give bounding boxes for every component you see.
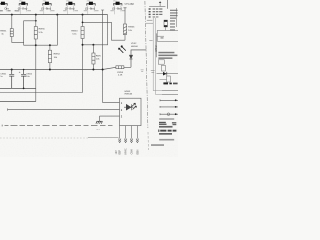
- svg-text:HW10B: HW10B: [125, 94, 133, 96]
- component small box dark caps: [164, 20, 167, 30]
- line right y79: [160, 78, 167, 80]
- notes text block bottom right: [151, 118, 176, 146]
- svg-text:{5·-8m}: {5·-8m}: [85, 6, 95, 10]
- node RW57 bottom: [92, 69, 94, 71]
- wire RW59 to VD52: [124, 66, 131, 68]
- node cap2 top: [23, 69, 25, 71]
- transistor VT56: [113, 1, 122, 15]
- wire RW57 stub: [92, 45, 94, 53]
- svg-text:{5·-8m}: {5·-8m}: [18, 6, 28, 10]
- wire RW56 bottom: [124, 35, 126, 41]
- svg-text:{5·-8m}: {5·-8m}: [65, 6, 75, 10]
- svg-text:RW53: RW53: [71, 30, 78, 32]
- svg-text:2SC: 2SC: [19, 1, 23, 3]
- svg-text:RW54: RW54: [54, 54, 61, 56]
- node opto wire: [102, 69, 104, 71]
- transistor VT54: [66, 1, 75, 15]
- wire RW53 bottom long: [82, 39, 84, 93]
- tick near chain: [147, 19, 153, 21]
- svg-text:12V: 12V: [116, 150, 118, 155]
- resistor RW53: [81, 27, 84, 39]
- svg-text:BEN: BEN: [137, 149, 139, 154]
- svg-text:Om: Om: [4, 6, 9, 10]
- wire cap ground line: [0, 87, 36, 89]
- small boxes right column: [158, 60, 164, 64]
- stub line y100.3: [160, 99, 178, 101]
- wire pin3: [100, 115, 120, 117]
- stub line y106.9: [160, 106, 178, 108]
- label fragments row2: [0, 10, 19, 12]
- svg-text:CNH: CNH: [131, 149, 133, 154]
- node RW57 top: [92, 44, 94, 46]
- svg-text:2.2K: 2.2K: [118, 75, 123, 77]
- stepped outline right: [157, 30, 178, 41]
- stub line y94.7: [162, 94, 178, 96]
- small box under diode: [167, 76, 171, 82]
- connector table A: [149, 8, 163, 17]
- vertical cable with rotated text: [155, 33, 157, 57]
- far right vertical: [176, 8, 178, 27]
- transistor VT55: [87, 1, 96, 15]
- text rows mid right: [158, 52, 177, 59]
- diode right column: [157, 72, 179, 76]
- wire line C: [0, 101, 36, 103]
- wire RW54 drop from bus: [36, 15, 58, 46]
- svg-text:m·n: m·n: [96, 129, 99, 131]
- svg-text:CW59: CW59: [117, 72, 124, 74]
- svg-text:2SC: 2SC: [113, 1, 117, 3]
- node bus-RW53: [82, 14, 84, 16]
- wire RW55 top: [35, 15, 37, 27]
- pin tick top: [101, 9, 104, 11]
- optocoupler HN53 box: [120, 98, 142, 125]
- chain line board edge: [145, 1, 148, 128]
- caption dashes row: [2, 125, 112, 127]
- resistor RW54: [48, 50, 51, 63]
- svg-text:2SC: 2SC: [43, 1, 47, 3]
- text block top far right: [170, 10, 178, 19]
- pin chevrons: [118, 139, 138, 143]
- svg-text:RW55: RW55: [39, 29, 46, 31]
- connector pins below box: [120, 126, 138, 139]
- node bus-RW54: [56, 14, 58, 16]
- node branch: [82, 22, 84, 24]
- svg-text:RW5: RW5: [96, 55, 102, 57]
- capacitor CW51: [9, 70, 14, 89]
- resistor RW59 horizontal: [116, 66, 124, 69]
- node RW53-line44: [82, 44, 84, 46]
- wire top right edge: [167, 0, 169, 9]
- svg-text:2SC: 2SC: [87, 1, 91, 3]
- svg-text:HN53: HN53: [125, 91, 131, 93]
- node cap2 bottom: [23, 88, 25, 90]
- node RW55 bottom: [35, 44, 37, 46]
- wire RW55 bottom: [35, 39, 37, 102]
- LED inside HN53: [124, 104, 134, 110]
- transistor VT52: [19, 1, 28, 15]
- transistor VT51: [0, 2, 7, 15]
- stub line y114.2 with circle: [160, 113, 178, 116]
- svg-text:RW51: RW51: [0, 30, 7, 32]
- node loop top: [35, 20, 37, 22]
- resistor RW51: [10, 29, 13, 37]
- svg-text:CW52: CW52: [26, 73, 33, 75]
- wire RW53 top: [82, 15, 84, 27]
- wire vertical to opto pin1: [103, 10, 120, 102]
- svg-text:BEP: BEP: [120, 149, 122, 154]
- wire RW55 parallel loop: [24, 21, 36, 45]
- symbol wing hooks: [0, 3, 122, 5]
- pin labels rotated: [116, 148, 139, 154]
- svg-text:2SC: 2SC: [66, 1, 70, 3]
- node cap CW51: [11, 69, 13, 71]
- wire RW56 top with tick: [124, 8, 127, 24]
- symbol second text row: [16, 10, 125, 12]
- wire RW54 bottom: [49, 63, 51, 70]
- wire bus end corner: [83, 15, 108, 45]
- svg-text:{5·-8m}: {5·-8m}: [112, 7, 122, 11]
- diode VD52: [129, 50, 146, 67]
- wire RW51 top: [11, 15, 13, 29]
- wire pin2 long: [8, 109, 120, 111]
- arrow top right: [159, 1, 162, 3]
- svg-text:HG500: HG500: [131, 46, 139, 48]
- wire RW54 top stub: [49, 45, 51, 50]
- resistor RW56: [123, 24, 126, 35]
- LED arrows VD52: [119, 46, 126, 53]
- svg-text:{5·-8m}: {5·-8m}: [41, 6, 51, 10]
- wire line B: [0, 92, 83, 94]
- node RW54 bottom: [49, 69, 51, 71]
- wire bottom horizontal: [0, 137, 88, 139]
- resistor RW55: [34, 27, 37, 40]
- node bus-RW55: [35, 14, 37, 16]
- wire ground stub: [99, 116, 101, 121]
- svg-text:XP5-2: XP5-2: [156, 45, 158, 52]
- svg-text:KPAC: KPAC: [125, 148, 128, 154]
- wire RW51 bottom to loop: [12, 37, 24, 43]
- tick pin2 end: [7, 108, 9, 110]
- bracket text rows right: [170, 20, 175, 30]
- cable wires right column: [153, 18, 162, 91]
- wire RW57 bottom: [92, 64, 94, 70]
- transistor VT53: [43, 1, 52, 15]
- svg-text:CW51: CW51: [0, 73, 7, 75]
- dark text marks right: [163, 82, 177, 84]
- svg-text:+: +: [19, 70, 21, 74]
- wire mid bus: [0, 67, 116, 69]
- node RW54 top: [49, 44, 51, 46]
- svg-text:VD52: VD52: [131, 43, 137, 45]
- LED arrows inside HN53: [132, 103, 137, 109]
- svg-text:VT5-6B8: VT5-6B8: [124, 3, 134, 6]
- svg-text:RW56: RW56: [128, 27, 135, 29]
- line under arrow: [149, 5, 165, 7]
- stub line y90.7: [162, 90, 178, 92]
- wire top bus: [0, 14, 108, 16]
- node bus-RW51: [11, 14, 13, 16]
- ground: [96, 121, 103, 123]
- wire branch to RW56: [83, 22, 126, 40]
- resistor RW57: [92, 53, 95, 64]
- capacitor CW52 polarized: [21, 70, 26, 89]
